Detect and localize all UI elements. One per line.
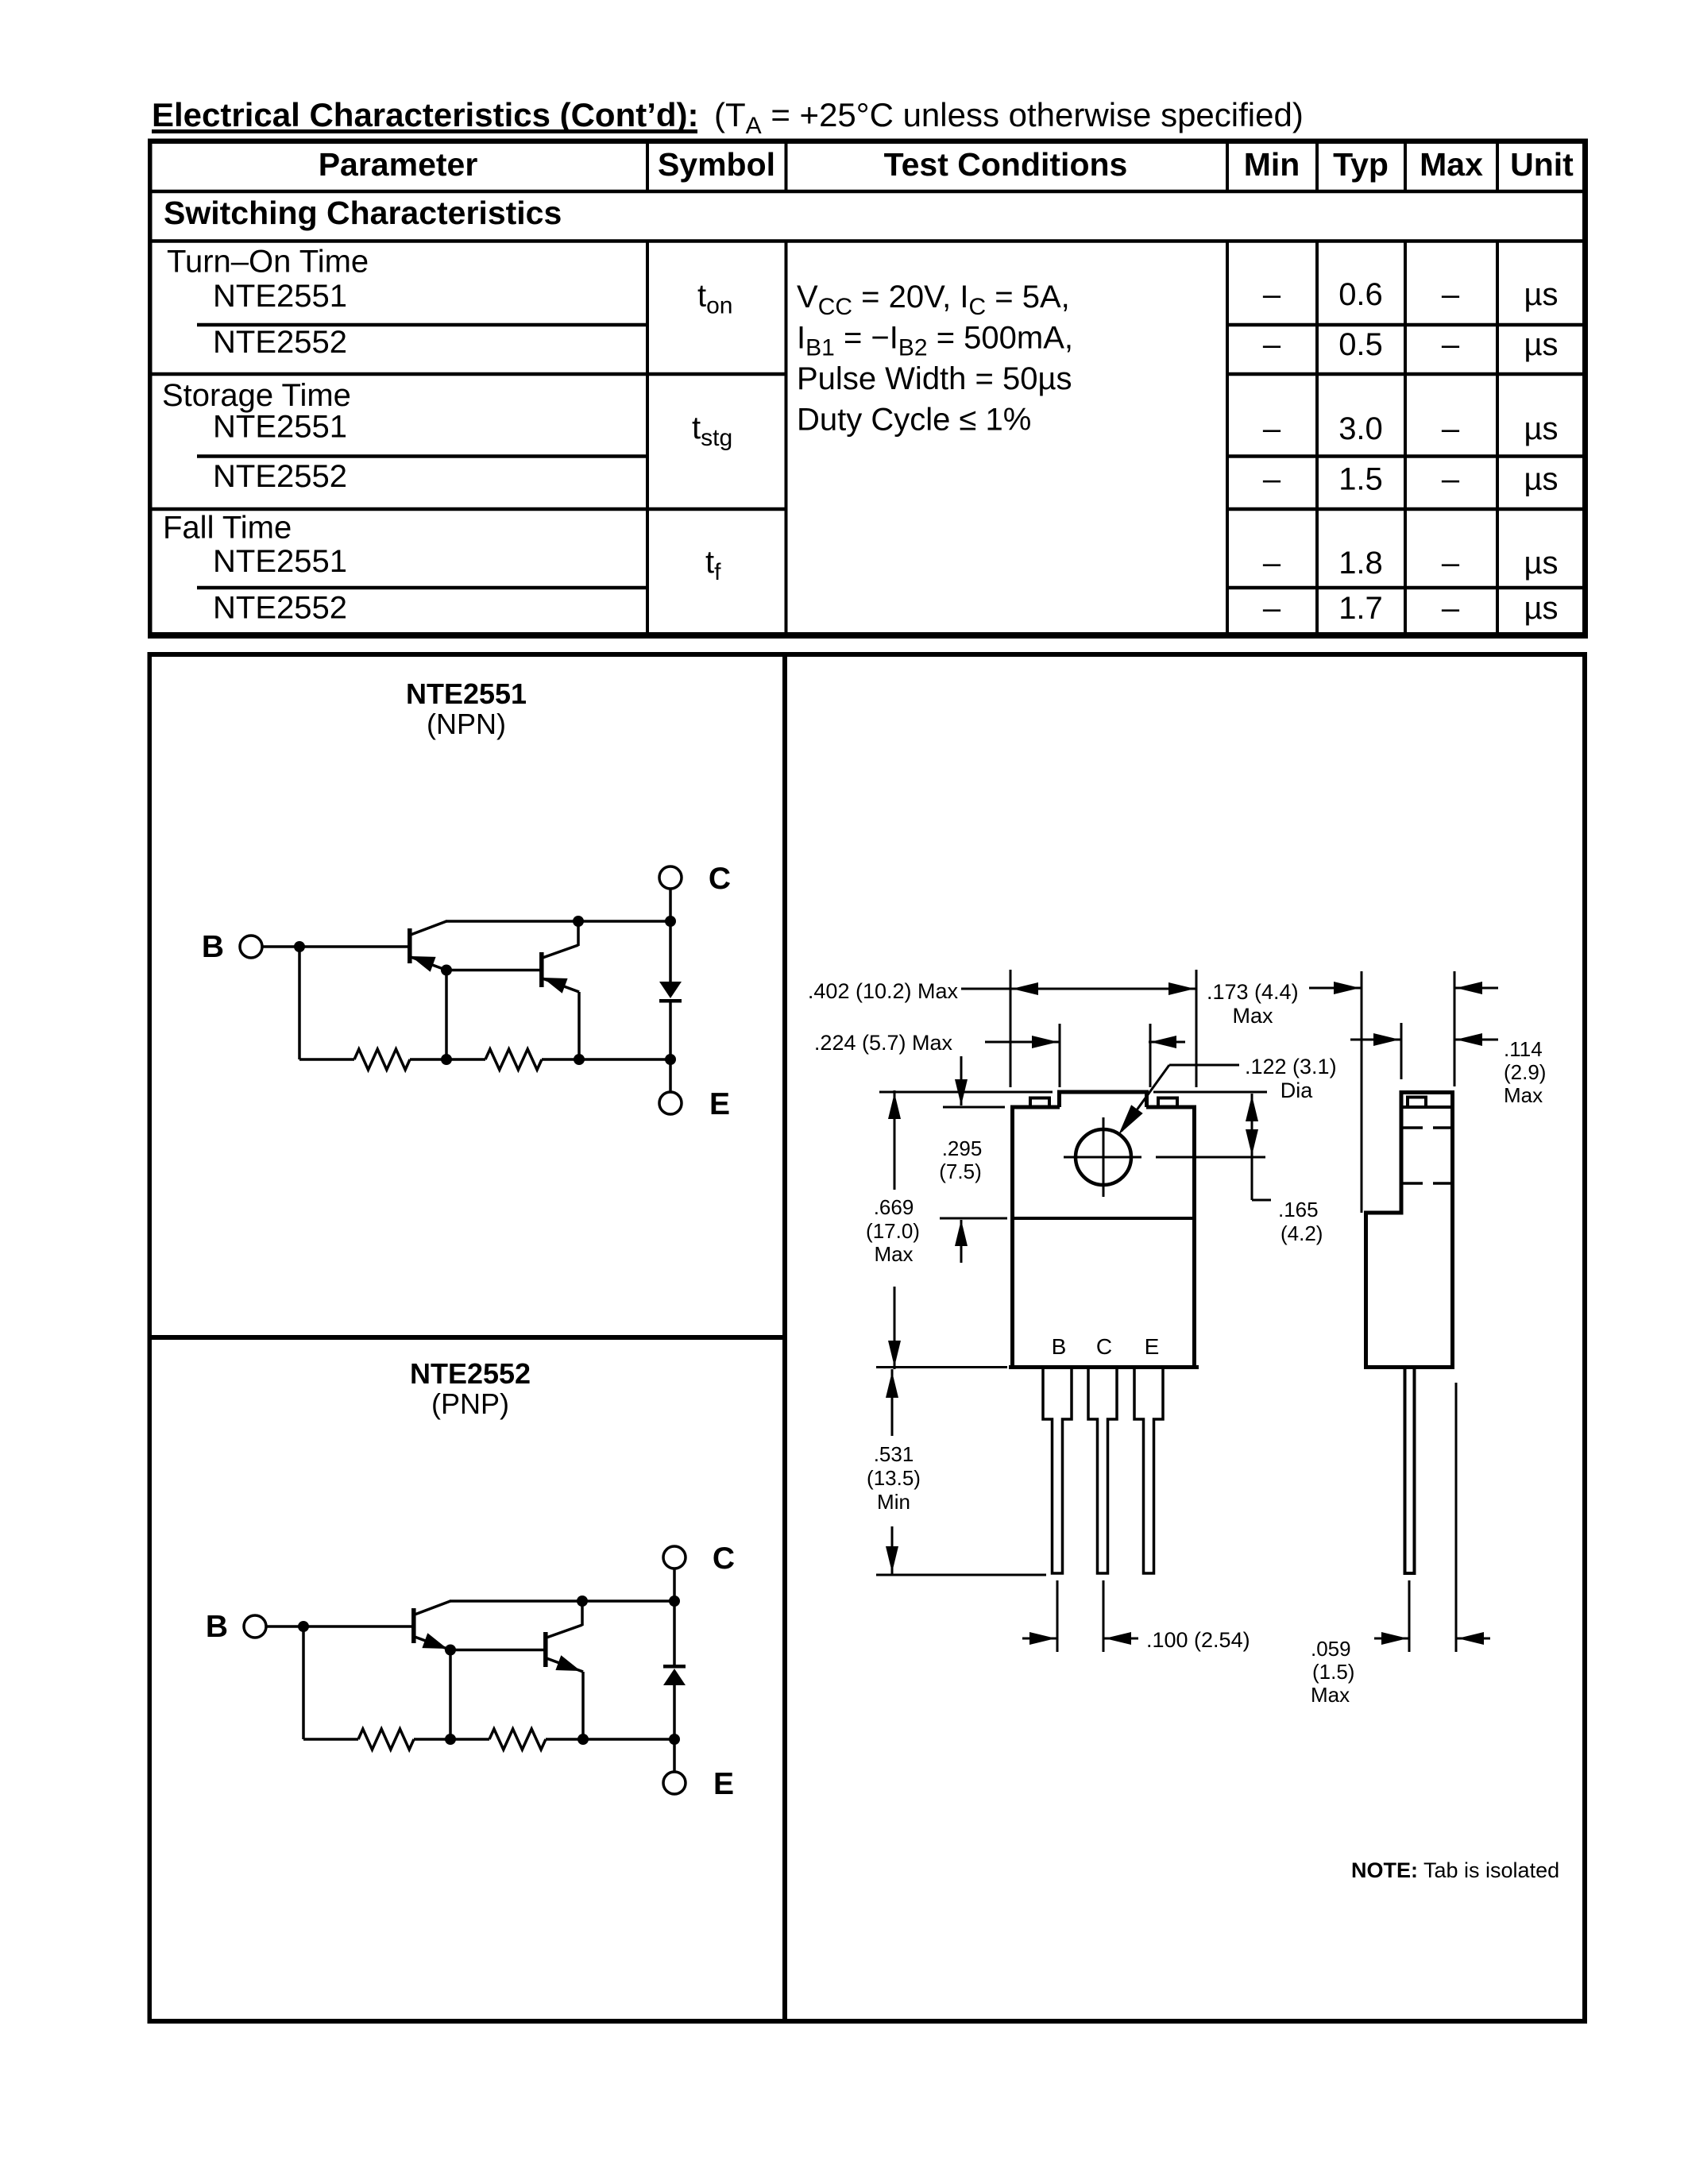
svg-text:Unit: Unit [1510,146,1574,183]
svg-text:Max: Max [1311,1683,1350,1707]
dim .531 (13.5) Min [876,1574,1046,1576]
resistor R2 [489,1729,546,1750]
dim .173 (4.4) Max [1361,971,1363,1213]
svg-text:Duty Cycle ≤ 1%: Duty Cycle ≤ 1% [797,403,1031,438]
svg-text:NTE2551: NTE2551 [213,544,347,579]
panel divider horizontal (left column) [148,1335,788,1340]
diode D1 (anode at emitter rail) [673,1601,676,1665]
terminal E [663,1772,686,1794]
svg-text:–: – [1442,411,1460,446]
wire R2 to E rail [546,1738,674,1741]
svg-text:Pulse Width = 50µs: Pulse Width = 50µs [797,361,1072,396]
svg-text:Max: Max [1420,146,1483,183]
svg-text:(NPN): (NPN) [427,708,506,740]
svg-text:–: – [1442,546,1460,581]
svg-text:.173 (4.4): .173 (4.4) [1207,980,1299,1004]
wire Q1 emitter down to bottom rail [449,1650,452,1740]
mech: front view body outline [1010,1107,1014,1369]
wire B to Q1 base [262,945,409,948]
svg-text:C: C [713,1542,735,1576]
node Q2 collector junction [577,1596,588,1607]
svg-text:.165: .165 [1278,1198,1319,1221]
svg-text:C: C [709,862,731,896]
wire E rail to terminal E [669,1059,672,1092]
svg-text:(2.9): (2.9) [1504,1060,1546,1084]
svg-text:µs: µs [1524,591,1558,626]
node B junction [298,1621,309,1632]
svg-text:0.5: 0.5 [1338,327,1383,362]
svg-text:1.5: 1.5 [1338,462,1383,497]
svg-text:IB1​ = −IB2​ = 500mA,: IB1​ = −IB2​ = 500mA, [797,321,1073,361]
diode D1 (anode at collector rail) [669,921,672,982]
wire Q1 emitter to Q2 base [450,1649,545,1652]
transistor Q2 [539,952,544,987]
node Q1 emitter junction [445,1645,456,1656]
svg-text:Fall Time: Fall Time [163,511,292,546]
wire R1 to node [414,1738,450,1741]
wire collector rail (top) [450,1599,674,1603]
transistor Q1 [411,1608,416,1643]
mech: tab raised top [1057,1090,1061,1107]
svg-text:.100 (2.54): .100 (2.54) [1146,1628,1250,1652]
resistor R2 [485,1049,542,1070]
dim .114 (2.9) Max [1400,1023,1403,1079]
dim .295 (7.5) [943,1106,1005,1109]
svg-text:(PNP): (PNP) [431,1387,509,1420]
svg-text:(TA​ = +25°C unless otherwise: (TA​ = +25°C unless otherwise specified) [714,96,1304,139]
svg-text:–: – [1442,277,1460,312]
wire B junction down to bottom rail [298,947,301,1059]
svg-text:E: E [709,1087,730,1121]
wire B to Q1 base [266,1625,413,1628]
wire collector rail (top) [446,920,670,923]
svg-text:Max: Max [874,1242,913,1266]
wire node to R2 [446,1058,485,1061]
terminal C [659,866,682,889]
panel divider vertical [782,652,787,2024]
svg-text:NTE2552: NTE2552 [213,591,347,626]
svg-text:NTE2551: NTE2551 [406,677,527,710]
svg-text:–: – [1263,277,1281,312]
table outer border [148,139,1588,145]
table column lines [646,144,649,191]
node collector rail / diode [669,1596,680,1607]
wire Q1 emitter down to bottom rail [445,970,448,1060]
dim .224 (5.7) Max [1059,1024,1061,1087]
resistor R1 [354,1049,410,1070]
svg-text:Dia: Dia [1280,1078,1313,1102]
wire Q2 emitter down to bottom rail [577,992,581,1059]
svg-text:–: – [1263,591,1281,626]
svg-text:NOTE: Tab is isolated: NOTE: Tab is isolated [1351,1858,1559,1882]
dim .165 (4.2) [1153,1091,1267,1094]
bottom rail wire [299,1058,354,1061]
svg-text:.531: .531 [874,1442,914,1466]
svg-text:–: – [1442,327,1460,362]
svg-text:Typ: Typ [1333,146,1389,183]
wire C to collector rail [669,889,672,921]
svg-text:µs: µs [1524,411,1558,446]
svg-text:–: – [1263,546,1281,581]
svg-text:E: E [713,1767,734,1801]
figure outer box [148,652,1588,657]
wire E rail to terminal E [673,1739,676,1772]
terminal B [240,936,262,958]
svg-text:.669: .669 [874,1195,914,1219]
dim .402 (10.2) Max [1010,970,1012,1087]
svg-text:.402 (10.2) Max: .402 (10.2) Max [808,979,959,1003]
node Q2 emitter junction [574,1054,585,1065]
svg-text:.224 (5.7) Max: .224 (5.7) Max [814,1031,953,1055]
wire node to R2 [450,1738,489,1741]
svg-text:.059: .059 [1311,1637,1351,1661]
node collector rail / diode [665,916,676,927]
node R1/R2 junction [445,1734,456,1745]
svg-text:0.6: 0.6 [1338,277,1383,312]
mech: internal line between tab and molded body [1010,1217,1196,1220]
svg-text:Switching Characteristics: Switching Characteristics [164,195,562,231]
svg-text:–: – [1263,411,1281,446]
svg-text:µs: µs [1524,546,1558,581]
svg-text:Parameter: Parameter [319,146,478,183]
svg-text:Electrical Characteristics (Co: Electrical Characteristics (Cont’d): [152,96,699,133]
dim .100 (2.54) [1056,1580,1059,1652]
svg-text:(17.0): (17.0) [866,1219,920,1243]
svg-text:–: – [1263,327,1281,362]
svg-text:3.0: 3.0 [1338,411,1383,446]
svg-text:NTE2552: NTE2552 [213,459,347,494]
svg-text:µs: µs [1524,277,1558,312]
mech: side view outline [1366,1093,1453,1368]
svg-text:1.8: 1.8 [1338,546,1383,581]
transistor Q2 [543,1632,548,1667]
svg-text:(7.5): (7.5) [939,1160,981,1183]
node R1/R2 junction [441,1054,452,1065]
svg-text:Test Conditions: Test Conditions [884,146,1128,183]
mech: hidden hole dashed lines (side view) [1402,1126,1453,1129]
transistor Q1 [408,928,412,963]
svg-text:B: B [1052,1334,1067,1359]
dim .669 (17.0) Max [879,1091,1053,1094]
node B junction [294,941,305,952]
svg-text:NTE2551: NTE2551 [213,410,347,445]
svg-text:–: – [1263,462,1281,497]
svg-text:(13.5): (13.5) [867,1466,921,1490]
svg-text:µs: µs [1524,327,1558,362]
node E rail junction [665,1054,676,1065]
svg-text:–: – [1442,591,1460,626]
mech: side view lead [1405,1369,1415,1573]
svg-text:1.7: 1.7 [1338,591,1383,626]
wire Q2 emitter down to bottom rail [581,1672,585,1739]
svg-text:Min: Min [877,1490,910,1514]
svg-text:C: C [1096,1334,1112,1359]
resistor R1 [358,1729,414,1750]
svg-text:NTE2551: NTE2551 [213,279,347,314]
wire B junction down to bottom rail [302,1626,305,1739]
node Q2 collector junction [573,916,584,927]
node E rail junction [669,1734,680,1745]
terminal B [244,1615,266,1638]
wire R1 to node [410,1058,446,1061]
wire Q1 emitter to Q2 base [446,969,541,972]
svg-text:Max: Max [1504,1083,1543,1107]
svg-text:(4.2): (4.2) [1280,1221,1323,1245]
svg-text:Max: Max [1232,1004,1273,1028]
node Q1 emitter junction [441,965,452,976]
svg-text:.122 (3.1): .122 (3.1) [1245,1055,1337,1078]
wire C to collector rail [673,1569,676,1601]
wire R2 to E rail [542,1058,670,1061]
svg-text:Turn–On Time: Turn–On Time [167,245,369,280]
svg-text:NTE2552: NTE2552 [410,1357,531,1390]
node Q2 emitter junction [577,1734,589,1745]
svg-text:.295: .295 [942,1136,983,1160]
svg-text:E: E [1145,1334,1160,1359]
dim .122 (3.1) Dia leader [1169,1064,1239,1067]
svg-text:.114: .114 [1504,1037,1543,1061]
svg-text:–: – [1442,462,1460,497]
terminal C [663,1546,686,1569]
mech: mounting hole [1076,1129,1131,1185]
svg-text:Symbol: Symbol [658,146,775,183]
mech: index bumps on top [1030,1098,1049,1108]
mech: pins front view [1043,1369,1072,1573]
svg-text:µs: µs [1524,462,1558,497]
svg-text:NTE2552: NTE2552 [213,325,347,360]
terminal E [659,1092,682,1114]
svg-text:(1.5): (1.5) [1312,1660,1354,1684]
dim .059 (1.5) Max [1408,1580,1411,1652]
bottom rail wire [303,1738,358,1741]
svg-text:B: B [206,1610,228,1644]
svg-text:Storage Time: Storage Time [162,378,351,413]
svg-text:B: B [202,930,224,964]
svg-text:Min: Min [1244,146,1300,183]
table row lines [150,190,1585,194]
